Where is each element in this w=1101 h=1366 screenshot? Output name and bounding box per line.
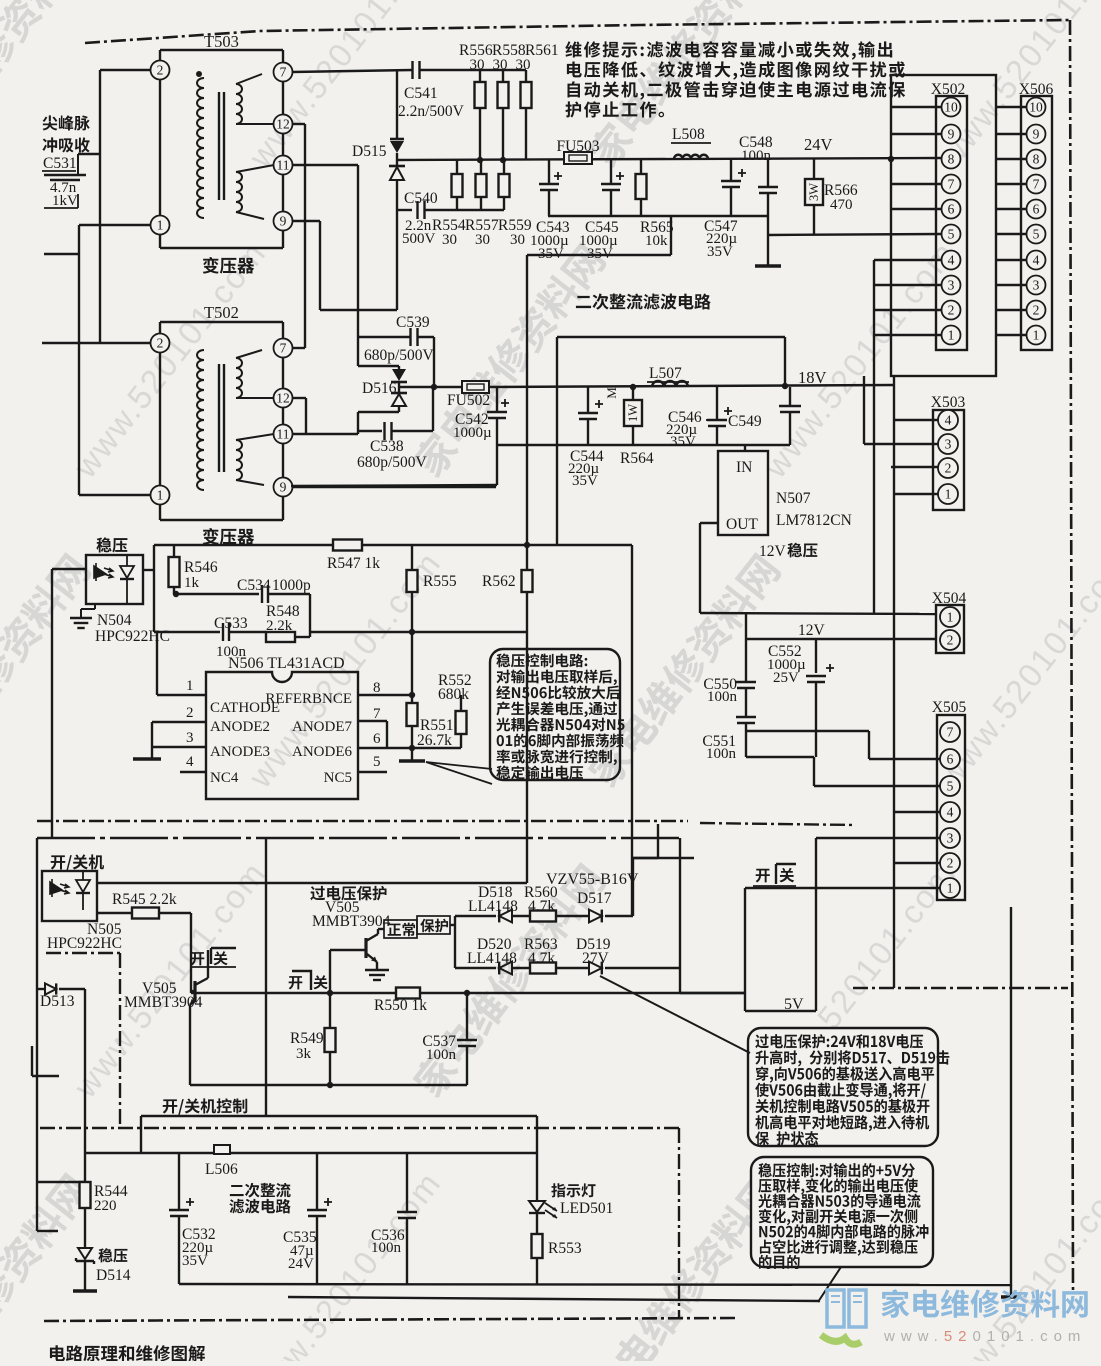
- wire: [358, 411, 399, 413]
- wire X506 stub: [996, 208, 1026, 210]
- IC N506 TL431ACD body: [206, 672, 358, 799]
- wire stub2: [37, 1230, 58, 1232]
- svg-text:4: 4: [947, 805, 954, 820]
- wire: [432, 387, 434, 431]
- diode D517: [589, 910, 602, 923]
- wire C531 top lead: [77, 154, 79, 175]
- zener D514: [78, 1248, 92, 1259]
- wire: [632, 387, 634, 400]
- callout leader2: [818, 1267, 841, 1302]
- X502 pin 9: [942, 125, 961, 144]
- wire: [391, 430, 433, 432]
- wire: [411, 545, 413, 570]
- svg-text:3W: 3W: [807, 183, 821, 201]
- svg-text:HPC922HC: HPC922HC: [47, 935, 122, 952]
- wire T502 pin7 stub: [292, 347, 305, 349]
- svg-text:35V: 35V: [182, 1253, 208, 1269]
- wire: [556, 967, 590, 969]
- svg-text:1kV: 1kV: [52, 193, 78, 209]
- resistor R550: [396, 988, 420, 999]
- svg-text:4: 4: [948, 253, 955, 268]
- svg-text:2: 2: [157, 63, 164, 78]
- wire: [480, 197, 482, 210]
- wire bottom of switch section: [190, 1084, 467, 1086]
- wire N506 pin3 stub: [152, 746, 206, 748]
- wire: [745, 723, 747, 757]
- wire: [813, 757, 815, 786]
- capacitor C540: [416, 201, 418, 219]
- svg-text:4.7k: 4.7k: [528, 950, 555, 967]
- ground TL431: [399, 759, 425, 762]
- svg-text:1: 1: [157, 488, 164, 503]
- wire box top: [557, 336, 785, 338]
- wire X505 pin1 line: [745, 887, 940, 889]
- svg-text:8: 8: [373, 680, 381, 696]
- svg-text:3: 3: [1033, 278, 1040, 293]
- wire: [417, 336, 434, 338]
- svg-text:3k: 3k: [296, 1046, 312, 1062]
- wire N506 pin2 stub: [152, 721, 206, 723]
- wire T503 pin11 stub: [292, 164, 358, 166]
- svg-text:X505: X505: [932, 699, 967, 716]
- svg-text:MMBT3904: MMBT3904: [124, 994, 203, 1011]
- capacitor C550: [736, 681, 756, 683]
- wire: [329, 1052, 331, 1085]
- X502 pin 3: [942, 276, 961, 295]
- label normal: [388, 923, 415, 937]
- X503 pin 1: [938, 484, 958, 504]
- wire T502 pin1 left: [79, 494, 151, 496]
- T503 left frame: [159, 79, 161, 216]
- svg-text:R562: R562: [482, 573, 516, 590]
- svg-text:D515: D515: [352, 143, 387, 160]
- resistor R549: [325, 1028, 336, 1052]
- wire: [536, 1213, 538, 1234]
- wire: [503, 160, 505, 174]
- wire: [84, 1208, 86, 1247]
- IC N507 LM7812CN: [718, 451, 768, 535]
- svg-text:1k: 1k: [184, 575, 200, 591]
- page border bottom: [44, 1318, 735, 1321]
- wire: [525, 108, 527, 160]
- node: [409, 629, 415, 635]
- wire stub left: [44, 253, 79, 255]
- wire 18V rail: [489, 385, 894, 387]
- wire: [610, 160, 612, 184]
- svg-text:7: 7: [280, 341, 287, 356]
- optocoupler N505 body: [42, 871, 97, 921]
- T502 bottom frame: [160, 519, 283, 521]
- svg-text:7: 7: [948, 177, 955, 192]
- svg-text:C534: C534: [237, 577, 271, 594]
- capacitor C548: [758, 186, 778, 188]
- watermark: [0, 1171, 93, 1366]
- wire X506 stub: [996, 158, 1026, 160]
- wire: [398, 406, 400, 412]
- wire: [173, 545, 175, 557]
- diode D515a bar: [390, 138, 404, 141]
- wire pin11 junction: [357, 431, 359, 434]
- svg-text:NC5: NC5: [324, 770, 352, 786]
- V505 collector: [195, 978, 208, 985]
- wire: [59, 988, 85, 990]
- svg-text:C539: C539: [396, 314, 430, 331]
- capacitor C551: [736, 716, 756, 718]
- label on-off: [51, 854, 104, 870]
- svg-text:R549: R549: [290, 1030, 324, 1047]
- capacitor C538: [383, 422, 385, 440]
- svg-text:11: 11: [277, 158, 290, 173]
- wire 5V jog: [745, 1010, 816, 1012]
- logo book icon: [827, 1290, 866, 1327]
- wire to T502 pin2: [42, 342, 151, 344]
- wire: [358, 430, 382, 432]
- svg-text:500V: 500V: [402, 231, 436, 247]
- svg-text:LL4148: LL4148: [467, 950, 517, 967]
- T502 top frame: [160, 321, 283, 323]
- capacitor C535: [307, 1209, 327, 1211]
- wire: [789, 387, 791, 406]
- label spike absorb line1: [43, 115, 90, 130]
- svg-text:1: 1: [186, 678, 194, 694]
- wire X503 pin1 stub: [894, 493, 938, 495]
- svg-text:VZV55-B16V: VZV55-B16V: [546, 871, 639, 888]
- node: [464, 990, 470, 996]
- svg-text:LM7812CN: LM7812CN: [776, 512, 852, 529]
- wire right vertical to terminal: [1010, 907, 1012, 1286]
- wire: [295, 636, 310, 638]
- wire to V505 base: [190, 913, 192, 993]
- wire X505 pin6: [869, 758, 940, 760]
- svg-text:5: 5: [1033, 227, 1040, 242]
- svg-text:4: 4: [186, 754, 194, 770]
- svg-text:30: 30: [510, 232, 525, 248]
- wire: [412, 631, 527, 633]
- node: [477, 157, 483, 163]
- wire ground return: [288, 1297, 820, 1301]
- svg-text:35V: 35V: [707, 244, 733, 260]
- resistor R546: [169, 557, 180, 587]
- svg-text:9: 9: [948, 127, 955, 142]
- diode D515b: [390, 167, 404, 180]
- wire: [863, 376, 865, 444]
- svg-text:OUT: OUT: [726, 516, 758, 533]
- wire: [37, 988, 44, 990]
- wire: [525, 70, 527, 82]
- svg-text:30: 30: [442, 232, 457, 248]
- wire: [548, 160, 550, 184]
- ground anodes: [133, 757, 161, 760]
- wire upper branch: [455, 915, 496, 917]
- callout text line4: [496, 702, 617, 718]
- resistor R558: [498, 82, 509, 108]
- wire: [679, 968, 681, 993]
- wire: [310, 631, 412, 633]
- wire: [236, 74, 262, 84]
- wire: [745, 613, 747, 639]
- wire: [640, 160, 642, 174]
- svg-text:2: 2: [947, 633, 954, 648]
- wire: [813, 205, 815, 235]
- resistor R556: [475, 82, 486, 108]
- svg-text:7: 7: [280, 65, 287, 80]
- wire pin1 feedback: [156, 632, 158, 695]
- resistor R551: [407, 703, 418, 726]
- ground: [755, 264, 781, 267]
- X502 pin 2: [942, 301, 961, 320]
- svg-text:D514: D514: [96, 1267, 131, 1284]
- wire: [411, 695, 413, 703]
- svg-text:1: 1: [948, 328, 955, 343]
- svg-text:HPC922HC: HPC922HC: [95, 628, 170, 645]
- X504 pin 2: [940, 630, 960, 650]
- capacitor C543: [539, 183, 559, 185]
- svg-text:T503: T503: [204, 32, 239, 51]
- svg-text:C538: C538: [370, 438, 404, 455]
- diode D519: [589, 962, 602, 975]
- X505 pin 6: [940, 749, 960, 769]
- X502 pin 5: [942, 225, 961, 244]
- V505 emitter: [190, 997, 196, 1005]
- wire X503 pin3 stub: [864, 443, 938, 445]
- wire: [512, 915, 530, 917]
- callout leader2: [426, 762, 492, 784]
- X506 pin 7: [1027, 175, 1046, 194]
- svg-text:4: 4: [945, 413, 952, 428]
- dash divider vertical: [119, 953, 121, 1128]
- wire: [396, 153, 398, 166]
- svg-text:L508: L508: [672, 126, 705, 143]
- N504 photodiode: [120, 566, 134, 578]
- logo title: [881, 1289, 1087, 1318]
- callout text line7: [497, 749, 617, 765]
- resistor R555: [407, 570, 418, 592]
- svg-text:24V: 24V: [288, 1256, 314, 1272]
- svg-text:9: 9: [280, 214, 287, 229]
- svg-text:X503: X503: [931, 394, 966, 411]
- wire N506 pin1 stub: [157, 694, 206, 696]
- wire: [236, 123, 274, 125]
- wire: [309, 594, 311, 632]
- capacitor C541: [411, 61, 413, 79]
- wire: [97, 912, 132, 914]
- watermark: [409, 241, 608, 481]
- section label secondary rectifier: [576, 294, 711, 310]
- callout rg text line5: [759, 1224, 928, 1239]
- label zener regulator: [98, 1248, 127, 1262]
- wire: [456, 160, 458, 174]
- inductor L507: [652, 381, 688, 387]
- resistor R564: [624, 400, 642, 426]
- wire N506 pin8 stub: [358, 694, 412, 696]
- wire: [815, 682, 817, 757]
- wire T502 pin11 line: [292, 433, 358, 435]
- inductor L506: [214, 1145, 230, 1154]
- wire box around X502: [891, 75, 996, 376]
- X502 pin 1: [942, 326, 961, 345]
- wire X506 stub: [996, 284, 1026, 286]
- watermark: [1099, 241, 1101, 481]
- svg-text:3: 3: [948, 278, 955, 293]
- node: [500, 157, 506, 163]
- wire T502 pin12 stub: [292, 397, 306, 399]
- wire LED column: [536, 1116, 538, 1201]
- svg-text:M: M: [604, 387, 619, 399]
- T503 right frame: [282, 50, 284, 63]
- label overvoltage protection: [310, 886, 386, 901]
- svg-text:ANODE3: ANODE3: [210, 744, 270, 760]
- callout overvoltage: [748, 1028, 938, 1146]
- svg-text:25V: 25V: [773, 670, 799, 686]
- wire vertical to C539: [357, 165, 359, 337]
- callout leader from D519: [600, 976, 750, 1053]
- wire: [633, 857, 694, 859]
- wire X503 pin2 stub: [891, 466, 938, 468]
- wire T503 pin12 stub: [292, 123, 305, 125]
- T503 caption: [203, 257, 255, 274]
- X505 pin 1: [940, 878, 960, 898]
- resistor R557: [476, 174, 487, 197]
- wire: [411, 632, 413, 695]
- svg-text:100n: 100n: [706, 746, 737, 762]
- node: [327, 1082, 333, 1088]
- wire lower rail top section: [548, 215, 768, 217]
- svg-text:8: 8: [1033, 152, 1040, 167]
- svg-text:R564: R564: [620, 450, 654, 467]
- wire: [357, 412, 359, 431]
- wire: [680, 992, 745, 994]
- wire vertical right bus: [893, 376, 895, 988]
- wire X506 stub: [996, 233, 1026, 235]
- wire X502 stub: [874, 284, 941, 286]
- svg-text:1000p: 1000p: [272, 577, 311, 594]
- wire: [480, 160, 482, 174]
- svg-text:R550 1k: R550 1k: [374, 997, 427, 1014]
- wire: [358, 336, 411, 338]
- wire: [81, 608, 95, 610]
- svg-text:5: 5: [947, 779, 954, 794]
- svg-text:8: 8: [948, 152, 955, 167]
- svg-text:1: 1: [945, 487, 952, 502]
- capacitor C536: [397, 1211, 417, 1213]
- X506 pin 10: [1027, 98, 1046, 117]
- wire: [153, 545, 155, 632]
- wire X506 stub: [996, 259, 1026, 261]
- svg-text:3: 3: [945, 437, 952, 452]
- wire: [868, 731, 870, 759]
- label regulator: [96, 537, 127, 552]
- wire: [679, 838, 681, 968]
- svg-text:C533: C533: [214, 615, 248, 632]
- T502 core line 1: [218, 364, 220, 472]
- wire X506 stub: [996, 309, 1026, 311]
- callout text line3: [496, 685, 620, 699]
- LED LED501: [529, 1201, 545, 1212]
- wire: [411, 726, 413, 761]
- X505 pin 4: [940, 802, 960, 822]
- wire to X505 pin7: [746, 730, 869, 732]
- wire: [784, 337, 786, 386]
- wire: [411, 592, 413, 632]
- X502 pin 6: [942, 200, 961, 219]
- svg-text:D517: D517: [577, 890, 612, 907]
- wire opto top line: [97, 882, 527, 884]
- wire box corner: [527, 254, 671, 256]
- section label line1: [230, 1183, 291, 1198]
- resistor R548: [266, 632, 295, 642]
- wire pin2 to trunk: [100, 69, 151, 71]
- wire emitter down: [189, 1005, 191, 1085]
- wire: [512, 967, 530, 969]
- svg-text:12V: 12V: [759, 543, 787, 560]
- wire: [178, 1153, 180, 1210]
- connector X505 body: [937, 715, 965, 900]
- svg-text:30: 30: [470, 57, 485, 73]
- connector X506 body: [1021, 96, 1052, 350]
- wire T503 pin9 stub: [292, 220, 320, 222]
- wire switch control line: [191, 992, 745, 994]
- svg-text:5: 5: [373, 754, 381, 770]
- wire: [178, 1216, 180, 1284]
- svg-text:L506: L506: [205, 1161, 238, 1178]
- T503 left frame lower: [159, 234, 161, 248]
- X505 pin 2: [940, 853, 960, 873]
- wire: [319, 221, 321, 310]
- wire X506 stub: [996, 133, 1026, 135]
- wire vertical down: [744, 888, 746, 1011]
- wire: [396, 180, 398, 210]
- watermark: [584, 551, 783, 791]
- wire: [154, 631, 220, 633]
- callout rg text line4: [759, 1209, 918, 1225]
- node: [431, 384, 437, 390]
- X506 pin 8: [1027, 150, 1046, 169]
- wire: [605, 915, 633, 917]
- svg-text:100n: 100n: [707, 689, 738, 705]
- watermark: [0, 551, 93, 791]
- wire: [151, 722, 153, 759]
- resistor R559: [499, 174, 510, 197]
- svg-text:10: 10: [944, 100, 958, 115]
- wire: [610, 190, 612, 216]
- resistor R563: [530, 963, 556, 974]
- capacitor C544: [578, 412, 598, 414]
- svg-text:2.2n/500V: 2.2n/500V: [398, 103, 465, 120]
- wire X505 pin4 stub: [894, 811, 940, 813]
- wire: [587, 419, 589, 445]
- watermark: [584, 0, 783, 171]
- T502 secondary winding lower: [236, 440, 242, 480]
- svg-text:2: 2: [947, 856, 954, 871]
- wire: [789, 412, 791, 445]
- label indicator: [551, 1183, 595, 1197]
- capacitor C549: [779, 405, 801, 407]
- svg-text:R555: R555: [423, 573, 457, 590]
- wire: [502, 70, 504, 82]
- svg-text:26.7k: 26.7k: [417, 732, 452, 749]
- T503 core line 1: [218, 92, 220, 200]
- svg-text:6: 6: [948, 202, 955, 217]
- wire: [229, 631, 266, 633]
- wire: [526, 545, 528, 570]
- svg-text:1: 1: [1033, 328, 1040, 343]
- wire stub: [37, 1181, 85, 1183]
- callout rg text line6: [760, 1239, 918, 1255]
- X506 pin 3: [1027, 276, 1046, 295]
- X502 pin 4: [942, 251, 961, 270]
- svg-text:www.520101.com: www.520101.com: [883, 1328, 1086, 1345]
- X506 pin 9: [1027, 125, 1046, 144]
